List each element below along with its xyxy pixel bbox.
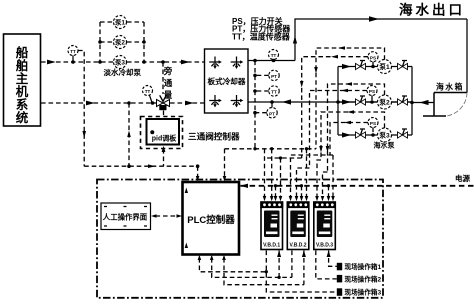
- arrow VFD3 t3: [327, 196, 331, 201]
- sensor PS1: [368, 52, 378, 67]
- arrow up into VFD1 bottom: [277, 250, 281, 257]
- svg-text:泵1: 泵1: [114, 17, 125, 26]
- arrow left on pump3 signal: [347, 110, 354, 114]
- arrow VFD3 t4: [331, 196, 335, 201]
- svg-text:海水泵: 海水泵: [374, 141, 395, 150]
- node PS1 tap: [371, 65, 375, 69]
- arrow VFD3 t2: [321, 196, 325, 201]
- arrow branch1 flow: [342, 64, 351, 69]
- arrow into PLC top right: [223, 176, 227, 181]
- wire sea pump branch 2: [338, 101, 412, 103]
- svg-text:船: 船: [16, 45, 29, 60]
- wire sea pump branch 1: [338, 66, 412, 68]
- arrow into 3-way valve: [160, 95, 167, 101]
- node PT1 bus tap: [253, 74, 257, 78]
- sensor PS3: [368, 118, 378, 136]
- wire mesh VFD1-t2 drop from trunk: [271, 149, 273, 196]
- node VFD1 left stub joins rail A: [265, 270, 268, 273]
- arrow into PLC top left: [196, 176, 200, 181]
- arrow down on f2: [300, 81, 304, 88]
- node PT2 pipe tap: [270, 100, 274, 104]
- wire sea water out of cooler to riser: [248, 60, 295, 62]
- arrow sea water into cooler: [282, 99, 291, 104]
- sensor TT4: [255, 86, 279, 96]
- pump 泵1 sea: [378, 60, 392, 74]
- svg-text:舶: 舶: [16, 58, 29, 73]
- node mesh 280.5,158: [279, 156, 282, 159]
- arrow VFD1 t2: [270, 196, 274, 201]
- arrow VFD2 t2: [295, 196, 299, 201]
- arrow down on f5: [319, 146, 323, 153]
- pump 泵2 sea: [378, 95, 392, 109]
- node manifold left branch2: [98, 40, 102, 44]
- symbol heat exchanger cross bottom-left: [209, 95, 222, 108]
- wire mesh f3 to VFD3 t2: [323, 172, 328, 196]
- node junction on y=166 line: [127, 164, 131, 168]
- wire mesh f5 to VFD3 t1: [317, 160, 321, 196]
- svg-text:泵2: 泵2: [114, 37, 125, 46]
- symbol sea water tank 海水箱: [423, 82, 467, 117]
- box 人工操作界面 manual operation interface: [101, 203, 151, 230]
- wire power line 电源: [241, 185, 474, 187]
- arrow up into VFD3 bottom: [327, 250, 331, 257]
- wire HMI link to PLC: [156, 215, 179, 217]
- arrow VFD2 t1: [289, 196, 293, 201]
- wire sea water riser and top outlet line: [295, 19, 467, 61]
- arrow left on PS1 signal: [331, 55, 338, 59]
- svg-text:V.B.D.1: V.B.D.1: [263, 243, 280, 249]
- node left manifold main tap: [336, 100, 340, 104]
- svg-text:PS: PS: [370, 121, 376, 126]
- svg-text:pid调板: pid调板: [152, 133, 177, 142]
- wire sea right manifold: [411, 67, 413, 136]
- node mesh 271.7,148.8: [270, 147, 273, 150]
- wire VFD3 left stub to box2 rail: [316, 251, 337, 279]
- arrow branch3 flow: [342, 132, 351, 137]
- device VFD1 V.B.D.1: [260, 202, 283, 250]
- pump 泵1 fresh: [114, 16, 127, 29]
- wire power drop VFD3 t3: [328, 186, 330, 196]
- arrow left on PS2 signal: [341, 89, 348, 93]
- svg-text:系: 系: [16, 97, 29, 112]
- arrow VFD2 t3: [300, 196, 304, 201]
- svg-text:现场操作箱1: 现场操作箱1: [345, 262, 382, 271]
- wire horizontal signal line y=166 to PLC: [84, 165, 197, 167]
- arrow valve to cooler: [185, 101, 194, 106]
- box pid控制板 outer dashed: [141, 117, 183, 149]
- wire power drop VFD2 t3: [301, 186, 303, 196]
- wire fresh pump parallel manifold right: [143, 22, 145, 62]
- svg-text:PT: PT: [269, 111, 275, 116]
- node TT1 tap: [71, 60, 75, 64]
- wire sensor bus vertical x=255: [254, 61, 256, 149]
- arrow on line A near engine: [47, 60, 56, 65]
- sensor PS2: [367, 86, 377, 103]
- node PS2 tap: [370, 100, 374, 104]
- arrow VFD2 t4: [305, 196, 309, 201]
- svg-text:TT: TT: [271, 90, 277, 95]
- arrow power into PLC: [240, 184, 248, 188]
- wire right edge down to sea water tank: [466, 19, 468, 93]
- arrow up on x=129 drop: [127, 131, 131, 138]
- arrow sea water outlet: [369, 16, 379, 22]
- arrow VFD1 t3: [274, 196, 278, 201]
- svg-text:三通阀控制器: 三通阀控制器: [188, 131, 240, 142]
- wire mesh f2 to VFD1 t1: [265, 149, 302, 196]
- wire bypass drop 旁通量: [162, 62, 164, 94]
- svg-text:淡水冷却泵: 淡水冷却泵: [104, 67, 142, 77]
- arrow VFD3 t1: [315, 196, 319, 201]
- device VFD2 V.B.D.2: [287, 202, 310, 250]
- valve branch2 left: [356, 96, 366, 105]
- svg-text:电源: 电源: [455, 173, 470, 183]
- valve three-way valve: [157, 100, 170, 111]
- wire PS3 signal left and down f6: [330, 123, 368, 156]
- svg-text:海水箱: 海水箱: [436, 82, 464, 92]
- svg-text:量: 量: [164, 90, 173, 100]
- wire mesh VFD1-t4 drop: [280, 158, 282, 196]
- symbol heat exchanger cross top-left: [209, 57, 222, 70]
- svg-text:TT，温度传感器: TT，温度传感器: [232, 31, 291, 41]
- arrow into PLC left: [177, 214, 183, 218]
- svg-text:泵1: 泵1: [379, 62, 390, 71]
- svg-text:PLC控制器: PLC控制器: [187, 214, 235, 226]
- svg-text:V.B.D.2: V.B.D.2: [289, 243, 306, 249]
- svg-text:海水出口: 海水出口: [399, 2, 465, 18]
- arrow branch2 flow: [342, 99, 351, 104]
- arrow down on f1: [314, 67, 318, 74]
- box ship main engine system 船舶主机系统: [4, 34, 41, 126]
- sensor TT1 on line A: [68, 46, 78, 63]
- svg-text:现场操作箱3: 现场操作箱3: [345, 288, 382, 297]
- pump 泵3 sea: [378, 128, 392, 142]
- box 现场操作箱2: [337, 275, 382, 284]
- svg-text:PS: PS: [369, 89, 375, 94]
- svg-text:板式冷却器: 板式冷却器: [208, 76, 246, 86]
- node right manifold suction tap: [410, 101, 414, 105]
- pump 泵2 fresh: [114, 36, 127, 49]
- wire mesh f4 to VFD2 t2: [297, 168, 310, 196]
- wire fresh water supply line A (engine to cooler, y=62): [41, 61, 205, 63]
- wire VFD2 left stub: [291, 251, 293, 278]
- arrow up on riser: [293, 36, 297, 44]
- box pid调板 inner: [147, 119, 180, 145]
- wire valve actuator to pid controller: [163, 111, 165, 117]
- wire mesh VFD2-t4 drop: [306, 149, 308, 196]
- node mesh 306.5,148.8: [305, 147, 308, 150]
- wire TT1 signal to x=84 drop: [78, 51, 84, 167]
- node x=129 top tap: [127, 101, 131, 105]
- wire fresh pump branch 2: [100, 41, 144, 43]
- arrow down on f3: [326, 146, 330, 153]
- arrow up into PLC bottom 2: [210, 255, 214, 260]
- box 现场操作箱1: [337, 262, 382, 271]
- node y166 to PLC corner: [196, 164, 200, 168]
- wire fresh pump branch 1: [100, 21, 144, 23]
- arrow VFD1 t4: [279, 196, 283, 201]
- valve branch2 right: [398, 96, 408, 105]
- arrow left on pump1 control: [338, 46, 345, 50]
- arrow up into pid box: [162, 146, 166, 152]
- svg-text:人工操作界面: 人工操作界面: [103, 212, 148, 221]
- wire pid bottom to PLC routing line: [163, 149, 165, 166]
- node VFD1 right stub joins rail B: [277, 276, 280, 279]
- box plate cooler 板式冷却器: [205, 49, 249, 113]
- wire sea pump branch 3: [338, 134, 412, 136]
- wire branch2 pump signal line f3: [328, 84, 385, 172]
- arrow up into PLC bottom 1: [198, 255, 202, 260]
- valve branch3 left: [356, 129, 366, 138]
- node PS3 tap: [371, 133, 375, 137]
- arrow up into VFD2 bottom: [302, 250, 306, 257]
- wire pump1 control line and down f1: [316, 48, 385, 149]
- wire PS1 signal left and down f2: [302, 57, 368, 158]
- sensor TT3 on sea outlet line: [269, 50, 279, 61]
- node manifold right main: [142, 60, 146, 64]
- wire drop into PLC top left: [197, 166, 199, 176]
- arrow VFD1 t1: [263, 196, 267, 201]
- svg-text:通: 通: [164, 78, 173, 88]
- svg-text:统: 统: [16, 110, 29, 125]
- wire mesh VFD3-t4 drop: [332, 155, 334, 196]
- arrow right on y=166 signal line: [148, 164, 156, 168]
- pump 泵3 fresh: [114, 56, 127, 69]
- wire PS2 signal left and down f4: [310, 91, 368, 169]
- wire line B valve to cooler: [170, 102, 205, 104]
- box PLC控制器: [183, 182, 240, 255]
- node bypass tap on line A: [161, 60, 165, 64]
- node TT3 tap: [272, 59, 276, 63]
- wire sea water main line cooler to right manifold y=102: [248, 101, 412, 103]
- sensor PT2: [255, 102, 277, 118]
- svg-text:主: 主: [16, 71, 29, 86]
- arrow inside PLC lower-left: [185, 243, 188, 249]
- arrow left on PS3 signal: [344, 121, 351, 125]
- svg-text:旁: 旁: [163, 66, 173, 76]
- wire mesh H y=148.8 trunk to PLC: [225, 148, 317, 150]
- wire PLC bottom line 2 rail B: [212, 258, 292, 277]
- node power tap VFD3: [327, 184, 330, 187]
- wire fresh pump parallel manifold left: [99, 22, 101, 62]
- wire VFD3 right stub elbow to box1: [329, 251, 337, 267]
- svg-text:PS: PS: [370, 55, 376, 60]
- arrow on line B: [86, 101, 95, 106]
- label 旁通量 bypass flow: [163, 66, 173, 100]
- node mesh bus joins trunk: [253, 147, 256, 150]
- node TT2 tap on line B: [151, 101, 155, 105]
- sensor TT2 near valve: [143, 86, 153, 103]
- valve branch1 right: [398, 61, 408, 70]
- arrow suction toward manifold: [420, 100, 429, 105]
- svg-text:V.B.D.3: V.B.D.3: [316, 243, 333, 249]
- arrow down on TT1 signal drop: [82, 131, 86, 138]
- wire power drop VFD1 t3: [275, 186, 277, 196]
- wire tank suction to sea manifold: [413, 102, 434, 104]
- symbol heat exchanger cross top-right: [231, 57, 244, 70]
- device VFD3 V.B.D.3: [313, 202, 336, 250]
- svg-text:TT: TT: [70, 49, 76, 54]
- node power tap VFD2: [300, 184, 303, 187]
- svg-text:泵2: 泵2: [379, 98, 390, 107]
- svg-text:TT: TT: [271, 53, 277, 58]
- node bus top tap: [253, 59, 257, 63]
- node manifold left main: [98, 60, 102, 64]
- valve branch1 left: [356, 61, 366, 70]
- sensor PT1: [255, 70, 279, 80]
- wire mesh drop to PLC top right: [224, 149, 226, 176]
- arrow up into PLC bottom 3: [222, 255, 226, 260]
- wire branch3 pump signal line f5: [321, 112, 385, 160]
- svg-text:PT: PT: [271, 74, 277, 79]
- svg-text:泵3: 泵3: [379, 131, 390, 140]
- wire VFD2 right stub to rail C: [303, 251, 305, 285]
- svg-text:泵3: 泵3: [114, 57, 125, 66]
- arrow into HMI right: [151, 214, 157, 218]
- wire VFD1 left stub down to box3 rail: [266, 251, 337, 293]
- wire mesh f6 to VFD2 t1: [291, 155, 334, 196]
- arrow on line A into cooler: [181, 60, 190, 65]
- wire fresh water return line B (engine to 3-way valve, y=103): [41, 102, 156, 104]
- wire sea left manifold: [337, 67, 339, 136]
- node power tap VFD1: [274, 184, 277, 187]
- box 现场操作箱3: [337, 288, 382, 297]
- arrow inside PLC upper-left: [185, 188, 188, 194]
- wire VFD1 right stub to rail B: [278, 251, 280, 278]
- wire PLC bottom line 1 to VFD1 left stub: [199, 258, 266, 272]
- wire TT2/line-B drop at x=129: [128, 103, 130, 166]
- node manifold right branch2: [142, 40, 146, 44]
- box control cabinet dash-dot border: [97, 180, 383, 298]
- arrow left on pump2 signal: [345, 82, 352, 86]
- node PT2 bus tap: [253, 111, 257, 115]
- wire PLC bottom line 3 rail C: [224, 258, 304, 285]
- node TT4 bus tap: [253, 89, 257, 93]
- svg-text:现场操作箱2: 现场操作箱2: [345, 275, 382, 284]
- svg-text:TT: TT: [145, 89, 151, 94]
- symbol heat exchanger cross bottom-right: [231, 95, 244, 108]
- svg-text:机: 机: [16, 84, 29, 99]
- valve branch3 right: [398, 129, 408, 138]
